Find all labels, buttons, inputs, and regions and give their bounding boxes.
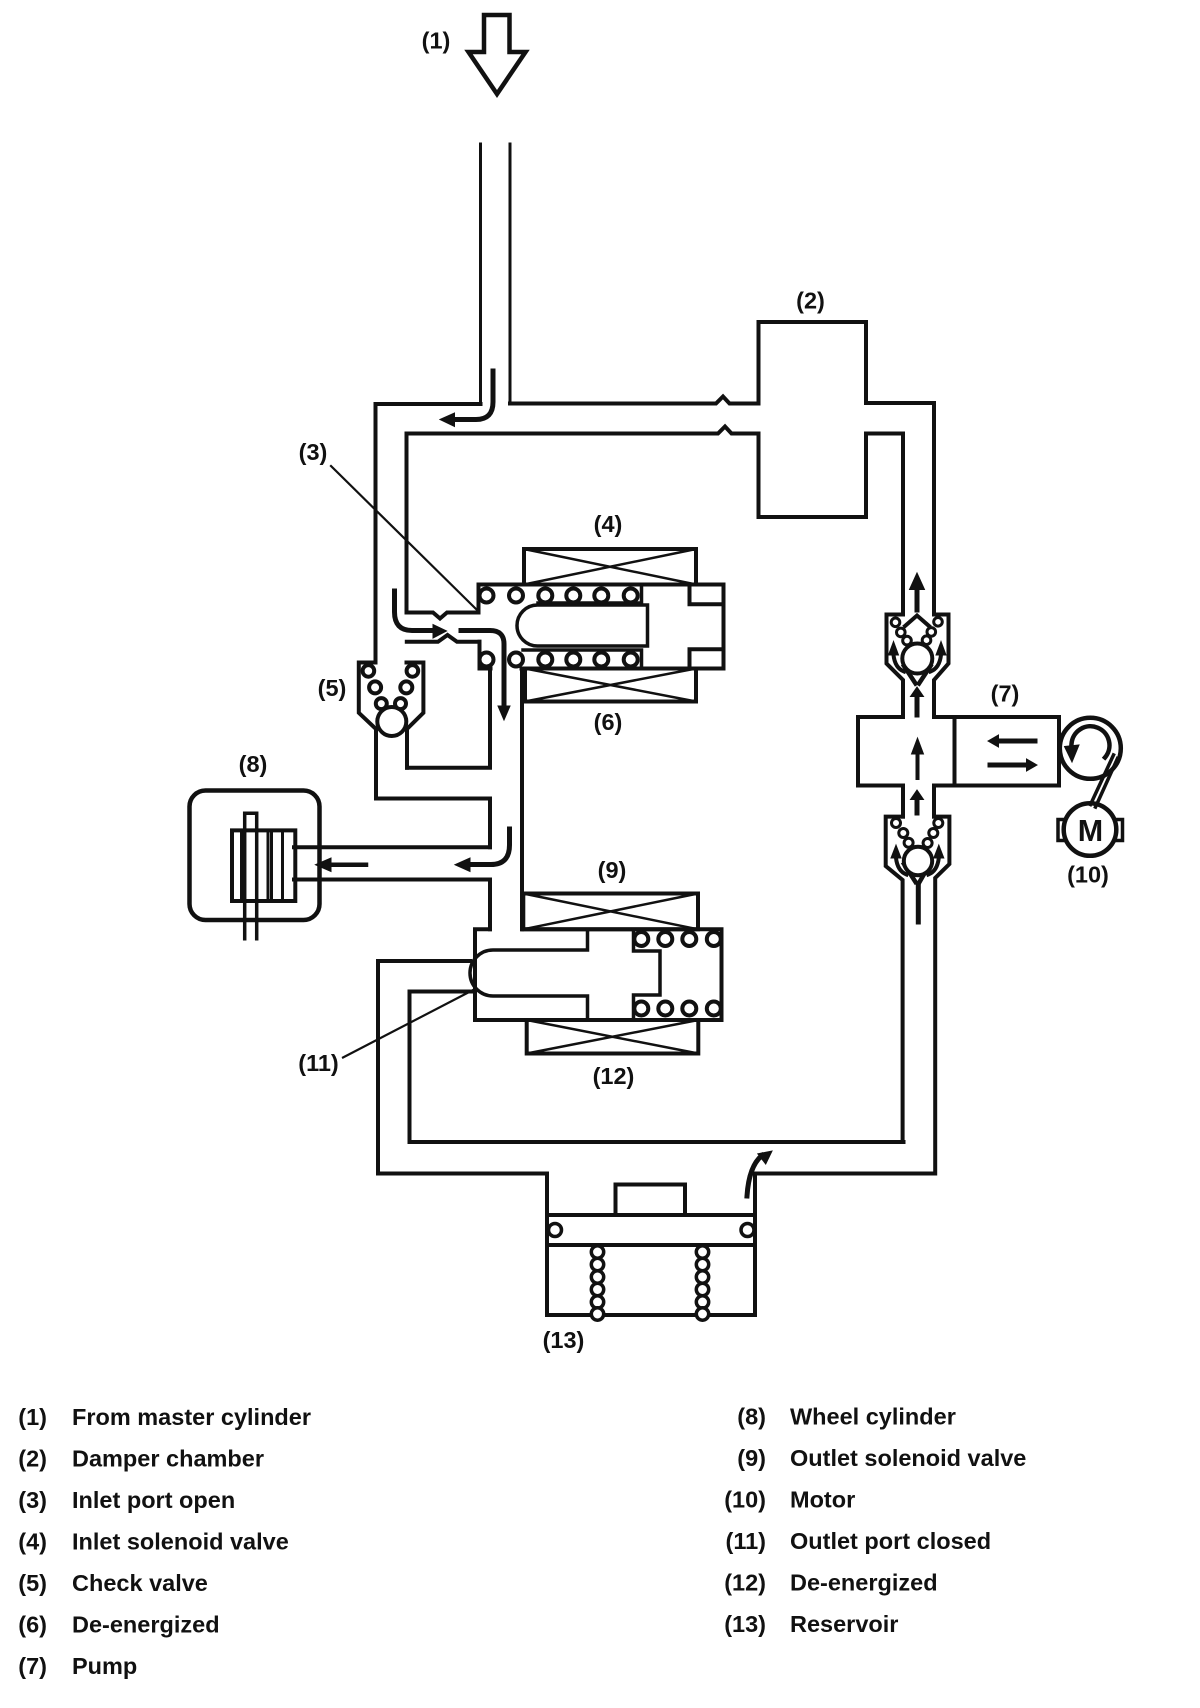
reservoir spring right [696,1246,708,1320]
inlet valve body [479,585,724,669]
inlet valve top spring circles [480,589,638,603]
svg-text:De-energized: De-energized [72,1612,220,1638]
outlet valve body [475,929,722,1020]
check valve C5 cup [359,663,424,799]
svg-text:(8): (8) [239,751,268,777]
svg-text:Pump: Pump [72,1653,137,1679]
reservoir piston center block [616,1185,686,1216]
lower check valve inner V [904,862,931,882]
check valve bypass loop [407,669,490,768]
svg-text:(7): (7) [18,1653,47,1679]
svg-text:(5): (5) [318,675,347,701]
svg-text:(11): (11) [726,1528,767,1554]
label leader line (3) [331,466,477,610]
svg-text:(4): (4) [18,1529,47,1555]
wheel cylinder piston [232,830,295,901]
svg-text:(4): (4) [594,511,623,537]
wire inlet port bottom line with break [407,635,480,642]
wire pipe from master cylinder [479,144,482,404]
lower check valve throat line [916,886,921,922]
upper check valve flank arrowheads [889,642,899,656]
inlet valve C6 bottom coil box [525,669,696,702]
lower check valve ball [904,847,932,875]
svg-text:(1): (1) [422,28,451,54]
flow arrow into inlet port [395,591,434,631]
outlet valve spring block [634,929,661,1020]
upper check valve cup [887,615,949,718]
upper check valve spring circles [891,618,942,645]
outlet valve top spring circles [634,932,721,946]
reservoir spring left [591,1246,603,1320]
svg-text:From master cylinder: From master cylinder [72,1404,311,1430]
label leader line (11) [343,990,474,1058]
svg-text:(1): (1) [18,1404,47,1430]
svg-text:(8): (8) [737,1404,766,1430]
upper check valve seat chevron [905,616,929,627]
motor M circle [1064,803,1117,856]
flow arrow above lower check valve [915,799,920,813]
svg-text:Wheel cylinder: Wheel cylinder [790,1404,956,1430]
inlet valve C4 top coil box [524,549,696,585]
svg-text:M: M [1078,814,1103,848]
reservoir C13 inlet walls [547,1174,755,1246]
check valve spring circles [363,665,419,709]
svg-text:(12): (12) [724,1570,766,1596]
svg-text:(5): (5) [18,1570,47,1596]
svg-text:(6): (6) [18,1612,47,1638]
wire damper to pump down-pipe [866,403,934,615]
reservoir seal circles [549,1224,562,1237]
inlet valve right end block [690,586,724,667]
flow arrow below upper check valve [915,696,920,715]
motor side tabs [1058,820,1123,841]
pump internal up arrow [916,753,920,778]
pump reciprocation arrows [997,739,1035,744]
wire inlet port top line with break [407,613,479,619]
svg-text:Check valve: Check valve [72,1570,208,1596]
svg-text:Reservoir: Reservoir [790,1611,898,1637]
lower check valve flank arrow tails [896,858,907,875]
wire inner left wall [405,434,409,613]
wire return pipe outlet port to bottom [378,961,474,1174]
svg-text:(10): (10) [724,1487,766,1513]
wire bottom pipe [378,1142,935,1174]
svg-text:(9): (9) [737,1445,766,1471]
wire top outer line [376,397,759,405]
reservoir piston plates [547,1215,755,1245]
flow arrow down from inlet valve [461,631,504,707]
wire top inner line [407,427,759,434]
motor rotation circle [1060,718,1121,779]
reservoir lower box [547,1245,755,1315]
lower check valve spring circles [892,819,943,848]
damper chamber C2 box [759,322,867,517]
upper check valve flank arrow tails [894,655,905,672]
wire pump to lower check valve [903,786,934,817]
wire outer left wall [374,404,378,663]
wire down pipe right wall [520,669,524,930]
wire pipe to wheel cylinder [294,847,490,929]
svg-text:(6): (6) [594,709,623,735]
svg-text:(2): (2) [796,288,825,314]
outlet valve C9 top coil box [523,894,698,930]
svg-text:(2): (2) [18,1446,47,1472]
wheel cylinder C8 box [190,791,320,921]
outlet valve plunger [470,929,588,1020]
svg-text:Motor: Motor [790,1487,855,1513]
inlet valve bottom spring circles [480,653,638,667]
inlet valve retainer lines [523,585,642,669]
svg-text:Inlet solenoid valve: Inlet solenoid valve [72,1529,289,1555]
upper check valve inner V [904,666,931,684]
svg-text:Outlet solenoid valve: Outlet solenoid valve [790,1445,1026,1471]
svg-text:(10): (10) [1067,862,1109,888]
svg-text:(3): (3) [18,1487,47,1513]
svg-text:(13): (13) [543,1327,585,1353]
flow arrow above upper check valve [915,589,920,610]
inlet arrow (1) hollow [469,15,526,94]
LEGEND [18,1404,1026,1680]
lower check valve cup [886,817,950,1174]
lower check valve flank arrowheads [891,845,901,858]
pump C7 left chamber [858,717,955,786]
pump C7 right chamber [955,717,1060,786]
svg-text:(7): (7) [991,681,1020,707]
svg-text:(9): (9) [598,857,627,883]
check valve ball [377,707,406,736]
flow arrow in wheel pipe left [332,862,366,867]
svg-text:(13): (13) [724,1611,766,1637]
motor shaft [1091,755,1118,807]
motor rotation inner arrow arc [1072,726,1110,757]
svg-text:Damper chamber: Damper chamber [72,1446,264,1472]
svg-text:(11): (11) [298,1050,339,1076]
flow arrow elbow from down pipe [472,829,510,865]
upper check valve ball [902,644,932,674]
flow arrow from reservoir [747,1156,762,1197]
svg-text:Outlet port closed: Outlet port closed [790,1528,991,1554]
wire channel to down pipe [376,799,490,848]
wheel cylinder push rod [245,813,257,938]
svg-text:(12): (12) [593,1063,635,1089]
svg-text:(3): (3) [299,439,328,465]
flow arrow at top junction [452,371,493,420]
outlet valve bottom spring circles [634,1002,721,1016]
inlet valve plunger [517,605,648,646]
outlet valve C12 bottom coil box [527,1020,699,1054]
svg-text:Inlet port open: Inlet port open [72,1487,235,1513]
svg-text:De-energized: De-energized [790,1570,938,1596]
